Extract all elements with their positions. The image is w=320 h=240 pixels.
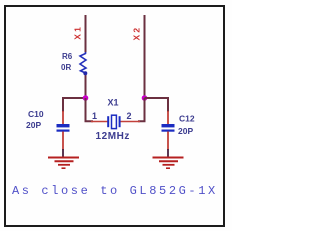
wire junction down to crystal pin2 (138, 98, 145, 121)
capacitor C10 pin top (62, 111, 64, 124)
node junction right (142, 95, 148, 101)
svg-text:C12: C12 (179, 114, 195, 124)
wire cap to ground right (167, 149, 169, 157)
capacitor C12 pin bottom (167, 132, 169, 151)
capacitor C12 pin top (167, 111, 169, 124)
resistor R6 (80, 52, 86, 73)
wire resistor to junction (85, 73, 87, 99)
svg-text:2: 2 (127, 111, 132, 121)
ground right (153, 158, 184, 169)
border frame (5, 6, 224, 226)
note text: As close to GL852G-1X (12, 184, 218, 198)
svg-text:1: 1 (92, 111, 97, 121)
svg-text:X1: X1 (108, 98, 119, 108)
ground left (48, 158, 79, 169)
wire junction right to cap corner (145, 98, 169, 112)
wire net X2 vertical (144, 15, 146, 99)
resistor bottom pin dot (83, 71, 87, 75)
svg-text:R6: R6 (62, 52, 73, 61)
crystal X1 pin 2 lead (120, 121, 140, 123)
crystal X1 left plate (107, 116, 109, 127)
svg-text:20P: 20P (26, 120, 41, 130)
capacitor C12 plates (162, 124, 175, 127)
svg-text:12MHz: 12MHz (96, 131, 130, 142)
svg-text:X2: X2 (132, 26, 142, 41)
svg-text:C10: C10 (28, 109, 44, 119)
wire junction left to cap corner (63, 98, 86, 112)
svg-text:X1: X1 (73, 25, 83, 40)
wire cap to ground left (62, 149, 64, 157)
svg-text:0R: 0R (61, 63, 71, 72)
crystal X1 body rectangle (112, 115, 117, 128)
capacitor C10 plates (57, 124, 70, 127)
svg-text:20P: 20P (178, 126, 193, 136)
wire net X1 vertical top (85, 15, 87, 53)
wire junction down to crystal pin1 (86, 98, 94, 121)
node junction left (83, 95, 89, 101)
crystal X1 pin 1 lead (91, 121, 108, 123)
crystal X1 right plate (119, 116, 121, 127)
capacitor C10 pin bottom (62, 132, 64, 151)
